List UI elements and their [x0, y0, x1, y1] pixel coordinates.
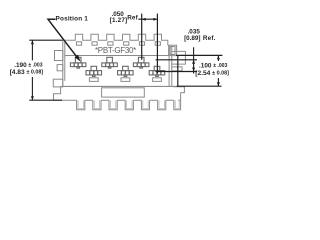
- dim .100 bottom extension line: [177, 85, 222, 87]
- dim .050 extension lines: [141, 14, 143, 60]
- svg-text:*PBT-GF30*: *PBT-GF30*: [95, 46, 136, 55]
- dim .190 top extension line: [29, 39, 62, 41]
- upper contact row extension line: [156, 59, 198, 61]
- dim .190 bottom extension line: [29, 99, 62, 101]
- teeth inner outlines: [78, 100, 179, 108]
- svg-text:[4.83 ± 0.08]: [4.83 ± 0.08]: [10, 69, 44, 76]
- left tab A: [55, 51, 63, 61]
- squares under top edge: [76, 42, 81, 45]
- body bottom line: [61, 85, 181, 87]
- svg-text:[2.54 ± 0.08]: [2.54 ± 0.08]: [195, 70, 229, 77]
- right tab A inner: [170, 47, 175, 55]
- pedestal rects under lower contacts: [89, 78, 98, 82]
- svg-text:Ref.: Ref.: [127, 15, 140, 22]
- svg-text:[0.89]: [0.89]: [184, 35, 200, 42]
- extension line right of body: [177, 55, 179, 86]
- body left edge (double line): [63, 40, 65, 86]
- svg-text:Ref.: Ref.: [203, 35, 216, 42]
- contact lower 3: [154, 66, 160, 70]
- body right edge (double line): [169, 45, 172, 86]
- dim .035 vertical line: [193, 47, 195, 73]
- contact upper 1: [75, 57, 81, 63]
- contact lower 1: [91, 66, 97, 70]
- polarization slot: [102, 88, 145, 97]
- lower contact row extension line: [156, 71, 198, 73]
- Position 1 leader line: [48, 19, 79, 59]
- dim .190 arrows: [31, 40, 34, 44]
- left tab C: [53, 79, 63, 87]
- lower view right tab: [173, 87, 185, 93]
- right tab A outer: [169, 45, 177, 55]
- dim .100 top extension line: [176, 54, 222, 56]
- dim .190 vertical line: [31, 40, 33, 60]
- connector body top castellated profile: [63, 34, 168, 45]
- body internal cavity top line: [65, 55, 169, 57]
- right tab C: [172, 67, 182, 71]
- left tab B: [57, 65, 63, 71]
- contact upper 3: [138, 57, 144, 63]
- svg-text:[1.27]: [1.27]: [110, 17, 128, 24]
- dim .050 arrow line: [139, 18, 158, 20]
- svg-text:Position 1: Position 1: [56, 16, 89, 23]
- dim .100 vertical line: [217, 55, 219, 61]
- svg-text:.100 ± .003: .100 ± .003: [199, 62, 228, 69]
- lower view outline with castellated bottom teeth: [54, 86, 181, 109]
- contact lower 2: [123, 66, 129, 70]
- right tab B bracket: [172, 51, 186, 64]
- contact upper 2: [107, 57, 113, 63]
